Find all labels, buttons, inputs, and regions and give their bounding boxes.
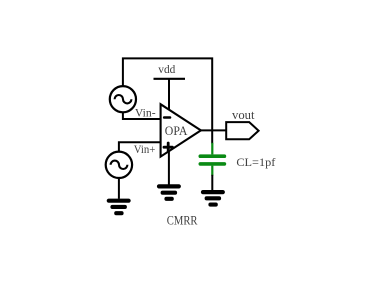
svg-text:vdd: vdd	[158, 62, 175, 76]
capacitor CL (green)	[200, 143, 224, 176]
wire capacitor bottom to ground	[211, 175, 213, 191]
vdd supply symbol	[154, 79, 186, 110]
svg-text:CMRR: CMRR	[167, 214, 198, 228]
wire source V1 bottom to inverting input	[123, 112, 161, 119]
output port flag vout	[226, 122, 258, 139]
op-amp minus pin mark	[163, 116, 171, 119]
svg-text:vout: vout	[232, 108, 255, 122]
AC source V2 (Vin+)	[106, 152, 132, 178]
svg-text:CL=1pf: CL=1pf	[236, 155, 275, 169]
wire source V2 top to non-inverting input	[119, 142, 161, 151]
wire op-amp output to vout flag	[201, 129, 226, 131]
ground GND3 (below capacitor)	[201, 190, 225, 207]
ground GND1 (below V2)	[107, 199, 131, 216]
wire op-amp bottom to ground	[168, 151, 170, 184]
AC source V1 (Vin-)	[110, 86, 136, 112]
svg-text:Vin+: Vin+	[134, 142, 156, 156]
op-amp U1 triangle	[161, 104, 201, 156]
wire top feedback loop from source V1 top to output node	[123, 58, 212, 130]
svg-text:Vin-: Vin-	[135, 106, 156, 120]
op-amp plus pin mark	[163, 142, 174, 153]
ground GND2 (below op-amp)	[157, 184, 181, 201]
wire output node down to capacitor	[211, 130, 213, 143]
wire source V2 bottom to ground	[118, 178, 120, 199]
svg-text:OPA: OPA	[165, 123, 188, 138]
